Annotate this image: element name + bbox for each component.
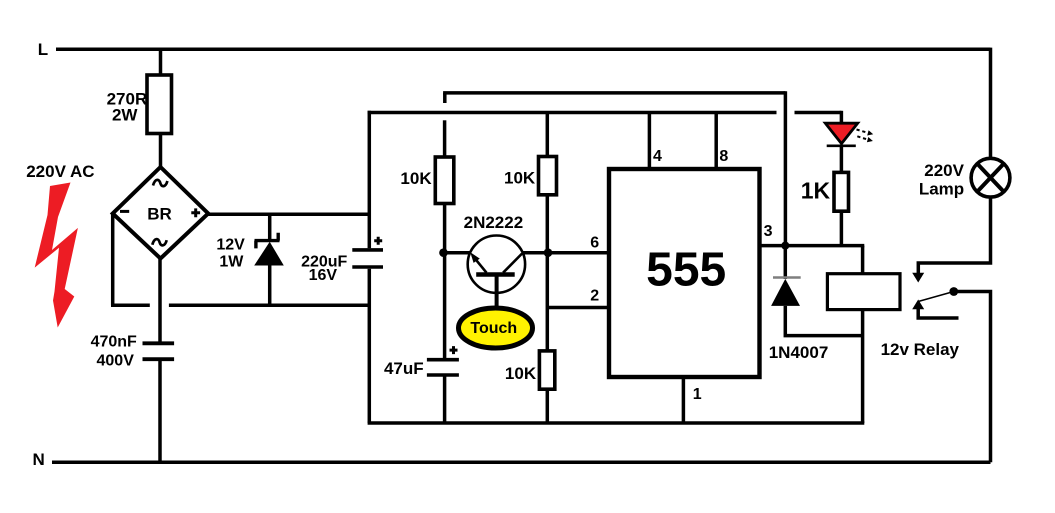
svg-text:N: N [33, 450, 45, 469]
svg-text:47uF: 47uF [384, 359, 424, 378]
svg-text:1W: 1W [219, 254, 244, 271]
svg-text:555: 555 [646, 244, 726, 297]
svg-text:1K: 1K [801, 178, 831, 204]
svg-text:6: 6 [590, 235, 599, 252]
svg-text:BR: BR [147, 205, 172, 224]
svg-text:16V: 16V [309, 267, 338, 284]
svg-text:Lamp: Lamp [919, 179, 964, 198]
svg-text:2N2222: 2N2222 [464, 213, 524, 232]
svg-text:10K: 10K [504, 169, 536, 188]
svg-text:10K: 10K [505, 364, 537, 383]
svg-text:1N4007: 1N4007 [769, 343, 829, 362]
svg-text:8: 8 [719, 148, 728, 165]
svg-text:470nF: 470nF [91, 334, 137, 351]
svg-text:220V AC: 220V AC [26, 162, 94, 181]
svg-text:1: 1 [693, 386, 702, 403]
svg-text:4: 4 [653, 148, 662, 165]
svg-text:12V: 12V [216, 236, 245, 253]
svg-text:Touch: Touch [470, 320, 517, 337]
svg-text:10K: 10K [400, 169, 432, 188]
svg-text:12v Relay: 12v Relay [881, 340, 960, 359]
svg-text:2W: 2W [112, 105, 138, 124]
svg-text:2: 2 [590, 288, 599, 305]
svg-text:3: 3 [764, 223, 773, 240]
svg-text:220V: 220V [924, 161, 964, 180]
svg-text:L: L [38, 40, 48, 59]
svg-text:400V: 400V [97, 352, 135, 369]
